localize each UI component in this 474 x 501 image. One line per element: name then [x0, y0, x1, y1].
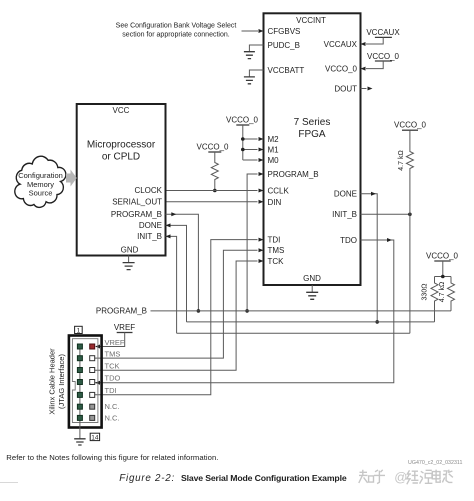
svg-text:VCCO_0: VCCO_0: [196, 143, 229, 152]
wire: VCCBATT to ground: [249, 70, 263, 77]
pin number 14 box: [90, 433, 99, 441]
ground: microprocessor GND: [123, 256, 135, 270]
junction dot INIT_B pull-up: [408, 213, 412, 217]
block arrow: cloud to microprocessor: [66, 170, 77, 187]
svg-text:CLOCK: CLOCK: [134, 186, 162, 195]
svg-text:4.7 kΩ: 4.7 kΩ: [398, 150, 405, 170]
wire: INIT_B row (micro to pull-up): [177, 332, 410, 334]
ground: PUDC_B: [244, 52, 255, 59]
svg-text:Figure 2-2:: Figure 2-2:: [119, 473, 175, 484]
svg-text:See Configuration Bank Voltage: See Configuration Bank Voltage Select: [116, 23, 237, 30]
svg-text:M2: M2: [268, 135, 280, 144]
svg-text:M1: M1: [268, 145, 280, 154]
svg-text:DONE: DONE: [139, 221, 162, 230]
ground: header: [74, 439, 85, 445]
junction dot bottom-right VCCO_0: [441, 275, 445, 279]
power: VCCO_0 supply to VCCO_0 pin: [361, 52, 400, 71]
header pin NC2 (gray): [90, 415, 95, 420]
watermark: zhihu @lvbodianlong: [359, 470, 453, 485]
svg-text:VREF: VREF: [114, 323, 135, 332]
svg-text:DOUT: DOUT: [334, 84, 357, 93]
header pin 2 VREF (red): [90, 344, 95, 349]
junction dot M1: [241, 148, 245, 152]
svg-text:section for appropriate connec: section for appropriate connection.: [122, 32, 229, 39]
FPGA right pin labels: [324, 40, 358, 245]
svg-text:PROGRAM_B: PROGRAM_B: [96, 307, 147, 316]
rotated caption: Xilinx Cable Header (JTAG Interface): [48, 348, 67, 415]
svg-text:Source: Source: [29, 188, 53, 197]
svg-text:VCCAUX: VCCAUX: [366, 28, 400, 37]
junction dot M2: [241, 137, 245, 141]
svg-text:N.C.: N.C.: [105, 402, 120, 411]
svg-text:7 Series: 7 Series: [294, 117, 331, 128]
svg-text:INIT_B: INIT_B: [332, 210, 357, 219]
wire: TCK from header row up into FPGA TCK: [95, 259, 264, 370]
svg-text:330Ω: 330Ω: [422, 284, 429, 301]
svg-text:DIN: DIN: [268, 198, 282, 207]
junction dot CCLK pull-up: [213, 189, 217, 193]
power: VCCO_0 supply for DONE/PROGRAM_B pull-ups: [426, 251, 459, 276]
microprocessor U2 box: [77, 104, 166, 256]
junction dot micro PROGRAM_B on rail: [197, 309, 201, 313]
svg-text:VCC: VCC: [113, 106, 130, 115]
ground: FPGA GND: [306, 285, 318, 299]
svg-text:CFGBVS: CFGBVS: [268, 27, 301, 36]
svg-text:Refer to the Notes following t: Refer to the Notes following this figure…: [6, 453, 218, 462]
wire: PROGRAM_B rail: [96, 307, 451, 316]
power: VCCO_0 supply for mode pins M2 M1 M0: [226, 116, 259, 161]
svg-text:Microprocessor: Microprocessor: [87, 140, 156, 151]
svg-text:TCK: TCK: [268, 257, 285, 266]
svg-text:TMS: TMS: [268, 246, 285, 255]
cloud: configuration memory source: [15, 156, 66, 207]
resistor R_progb 4.7k: [439, 277, 455, 311]
svg-text:GND: GND: [121, 246, 139, 255]
svg-text:TDI: TDI: [268, 235, 281, 244]
note: configuration bank voltage select: [116, 23, 237, 39]
junction dot FPGA DONE on DONE row: [375, 320, 379, 324]
arrow into M0: [259, 158, 264, 162]
svg-text:Configuration: Configuration: [18, 171, 63, 180]
svg-text:CCLK: CCLK: [268, 186, 290, 195]
svg-text:PUDC_B: PUDC_B: [268, 41, 300, 50]
svg-text:UG470_c2_02_032311: UG470_c2_02_032311: [408, 460, 462, 466]
power: VCCO_0 supply for INIT_B pull-up: [394, 121, 427, 131]
svg-text:Slave Serial Mode Configuratio: Slave Serial Mode Configuration Example: [181, 473, 347, 483]
wire: FPGA PROGRAM_B pin down to rail: [247, 172, 263, 311]
svg-text:TDO: TDO: [105, 374, 121, 383]
svg-text:INIT_B: INIT_B: [137, 232, 162, 241]
resistor R_done 330 ohm: [422, 277, 439, 322]
ground: VCCBATT: [244, 77, 255, 84]
resistor R_initb 4.7k pull-up: [398, 130, 413, 333]
wire: SERIAL_OUT to DIN: [166, 200, 264, 204]
faint page edge line bottom-left: [0, 482, 18, 484]
resistor R_cclk pull-up: [211, 152, 218, 191]
wire: FPGA TDO out, down to TDO row, into header TDO: [95, 238, 394, 385]
wire: microprocessor PROGRAM_B out, down to PROGRAM_B rail: [166, 212, 199, 311]
FPGA U1 box (7 Series FPGA): [264, 13, 361, 285]
svg-text:VCCBATT: VCCBATT: [268, 66, 305, 75]
header pin TCK: [90, 368, 95, 373]
svg-text:VCCO_0: VCCO_0: [226, 116, 259, 125]
svg-text:VCCO_0: VCCO_0: [325, 64, 358, 73]
svg-text:VCCO_0: VCCO_0: [426, 251, 459, 260]
header pin TDI: [90, 392, 95, 397]
svg-text:VREF: VREF: [105, 338, 125, 347]
figure caption: [119, 473, 347, 484]
wire: PUDC_B to ground: [249, 45, 263, 52]
junction dot FPGA PROGRAM_B on rail: [245, 309, 249, 313]
power: VREF supply into header pin 1: [95, 323, 135, 349]
JTAG header outer box: [69, 336, 102, 428]
header pin TDO: [90, 380, 95, 385]
power: VCCO_0 supply for CCLK pull-up: [196, 143, 229, 153]
svg-text:VCCO_0: VCCO_0: [367, 52, 400, 61]
header left pins (ground column): [77, 344, 82, 420]
svg-text:VCCINT: VCCINT: [296, 16, 326, 25]
FPGA left pin labels: [268, 27, 319, 266]
pin number 1 box: [75, 326, 83, 334]
svg-text:M0: M0: [268, 156, 280, 165]
svg-text:@: @: [394, 470, 407, 485]
wire: CLOCK to CCLK: [166, 189, 264, 193]
wire: FPGA INIT_B to pull-up node: [361, 213, 410, 215]
wire: FPGA DONE out, down to DONE row: [361, 192, 378, 322]
svg-text:TMS: TMS: [105, 350, 121, 359]
wire: DONE into microprocessor, down to DONE row: [166, 223, 187, 322]
microprocessor right pin labels: [111, 186, 163, 241]
svg-text:or CPLD: or CPLD: [102, 152, 140, 163]
header pin NC1 (gray): [90, 404, 95, 409]
svg-text:FPGA: FPGA: [298, 129, 326, 140]
JTAG header inner outline with key notch: [72, 339, 98, 423]
wire: DOUT output arrow: [361, 87, 373, 91]
svg-text:Xilinx Cable Header: Xilinx Cable Header: [48, 348, 57, 415]
svg-text:PROGRAM_B: PROGRAM_B: [111, 210, 162, 219]
svg-text:VCCAUX: VCCAUX: [324, 40, 358, 49]
svg-text:TCK: TCK: [105, 362, 120, 371]
header pin TMS: [90, 356, 95, 361]
header signal labels: [105, 338, 125, 422]
svg-text:4.7 kΩ: 4.7 kΩ: [439, 282, 446, 302]
svg-text:DONE: DONE: [334, 190, 357, 199]
svg-text:1: 1: [77, 327, 81, 334]
svg-text:(JTAG Interface): (JTAG Interface): [57, 354, 66, 409]
wire: INIT_B into microprocessor, down to INIT_B row: [166, 234, 177, 333]
svg-text:VCCO_0: VCCO_0: [394, 121, 427, 130]
svg-text:TDO: TDO: [340, 236, 357, 245]
arrow into M1: [259, 148, 264, 152]
header ground bus (left pin column): [79, 347, 81, 439]
svg-text:GND: GND: [303, 274, 321, 283]
svg-text:14: 14: [91, 434, 99, 441]
svg-text:N.C.: N.C.: [105, 413, 120, 422]
svg-text:PROGRAM_B: PROGRAM_B: [268, 170, 319, 179]
wire: CFGBVS arrow from note: [242, 29, 264, 33]
power: VCCAUX supply to VCCAUX pin: [361, 28, 401, 46]
wire: TDI from header row up into FPGA TDI: [95, 238, 264, 395]
wire: DONE row (micro to 330 ohm): [187, 321, 435, 323]
svg-text:TDI: TDI: [105, 386, 117, 395]
svg-text:SERIAL_OUT: SERIAL_OUT: [112, 198, 162, 207]
wire: TMS from header row up into FPGA TMS: [95, 248, 264, 358]
arrow into M2: [259, 137, 264, 141]
